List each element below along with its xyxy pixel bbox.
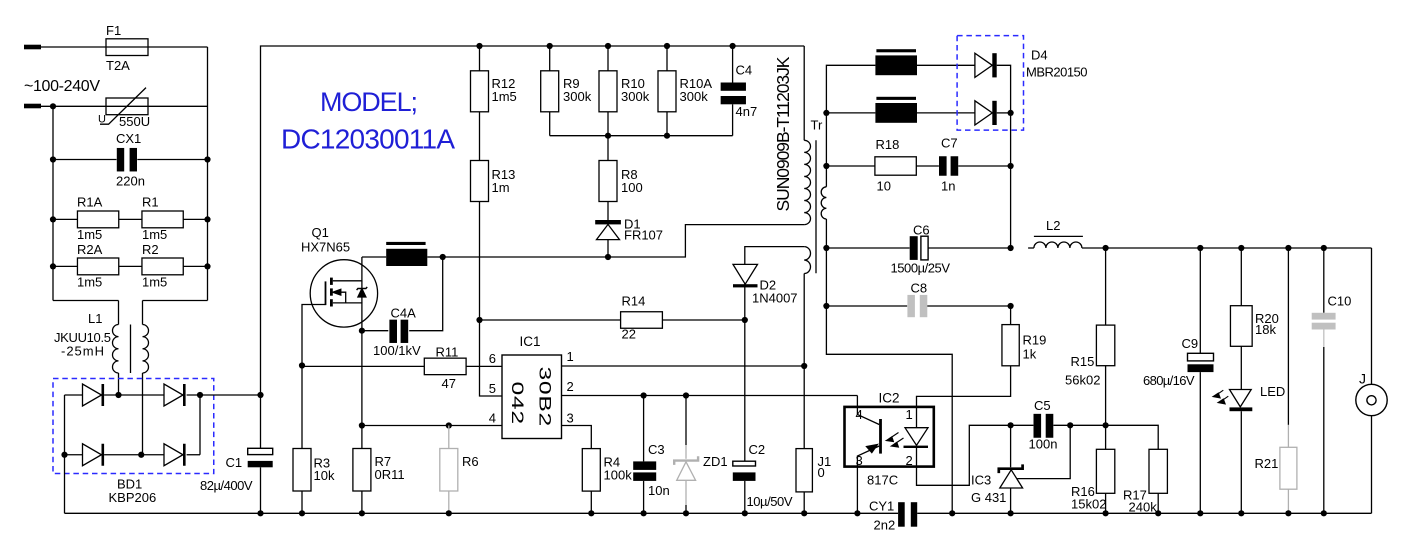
svg-text:KBP206: KBP206: [109, 490, 157, 505]
svg-text:100k: 100k: [604, 467, 633, 482]
svg-text:47: 47: [442, 376, 456, 391]
common-mode choke L1 JKUU10.5 -25mH: [54, 301, 149, 455]
IC2 led: [887, 407, 929, 467]
svg-text:IC3: IC3: [971, 473, 991, 488]
wire output rail to J connector: [1106, 245, 1372, 251]
svg-text:1N4007: 1N4007: [752, 290, 798, 305]
svg-text:56k02: 56k02: [1065, 373, 1100, 388]
svg-text:1500µ/25V: 1500µ/25V: [891, 261, 951, 276]
wire secondary return to output rail: [826, 247, 909, 249]
shunt reference IC3 G 431: [971, 425, 1070, 516]
svg-text:Tr: Tr: [811, 118, 823, 133]
optocoupler IC2 817C: [845, 390, 934, 487]
svg-text:550U: 550U: [119, 114, 150, 129]
svg-text:~100-240V: ~100-240V: [24, 78, 100, 95]
svg-text:4: 4: [856, 407, 863, 422]
svg-text:Q1: Q1: [312, 225, 329, 240]
capacitor C2 10u/50V: [733, 320, 793, 516]
resistor R15 56k02: [1065, 248, 1115, 425]
svg-text:-25mH: -25mH: [61, 344, 104, 359]
wire D4 cathode bus down to output rail: [1008, 113, 1014, 248]
diode D4-B: [975, 101, 1014, 125]
ferrite bead secondary output 2: [826, 97, 975, 123]
svg-text:R15: R15: [1071, 354, 1095, 369]
resistor R1 1m5: [119, 195, 211, 243]
svg-text:10k: 10k: [314, 468, 335, 483]
svg-text:CY1: CY1: [869, 499, 894, 514]
svg-text:R18: R18: [876, 137, 900, 152]
svg-text:FR107: FR107: [624, 228, 663, 243]
svg-text:3: 3: [567, 411, 574, 426]
capacitor C1 82u/400V: [200, 395, 273, 516]
svg-text:R21: R21: [1255, 456, 1279, 471]
svg-text:D4: D4: [1031, 48, 1048, 63]
resistor R6 not fitted: [440, 426, 479, 517]
svg-text:300k: 300k: [680, 89, 709, 104]
svg-text:240k: 240k: [1129, 500, 1158, 515]
svg-text:1k: 1k: [1023, 346, 1037, 361]
pin 4 label IC2: [856, 407, 863, 422]
label ~100-240V: [24, 78, 100, 95]
svg-text:R1: R1: [142, 195, 159, 210]
connector J output jack: [1356, 248, 1387, 513]
wire bottom rail secondary side: [917, 512, 1371, 514]
resistor R8 100: [599, 136, 643, 220]
svg-text:10: 10: [877, 179, 891, 194]
resistor R4 100k: [582, 449, 632, 517]
svg-text:IC2: IC2: [879, 390, 900, 405]
capacitor C3 10n: [633, 396, 670, 517]
svg-text:MBR20150: MBR20150: [1026, 65, 1088, 80]
resistor R7 0R11: [353, 331, 405, 517]
svg-text:C2: C2: [749, 442, 766, 457]
resistor R3 10k: [293, 362, 335, 516]
wire drain node to D1 anode and primary bottom: [440, 225, 805, 261]
svg-text:1m5: 1m5: [142, 227, 167, 242]
svg-text:U: U: [98, 114, 106, 126]
transformer secondary winding: [821, 65, 875, 306]
svg-text:C7: C7: [941, 135, 958, 150]
svg-text:10µ/50V: 10µ/50V: [747, 494, 793, 509]
wire right bus vertical: [143, 47, 208, 301]
IC2 phototransistor: [857, 396, 880, 467]
svg-text:18k: 18k: [1255, 322, 1276, 337]
junction DC bus at bridge output: [257, 392, 263, 398]
diode BD1-A top-left: [65, 384, 105, 406]
svg-text:1: 1: [567, 349, 574, 364]
transformer core: [815, 140, 817, 273]
diode D4-A: [975, 53, 1011, 113]
resistor R14 22: [480, 294, 748, 342]
wire left bus vertical: [53, 106, 119, 300]
svg-text:L1: L1: [88, 311, 102, 326]
bridge rectifier BD1 KBP206 dashed box: [53, 379, 214, 506]
transistor Q1 HX7N65 MOSFET: [301, 225, 378, 366]
diode D4 dashed box MBR20150: [957, 36, 1087, 131]
ferrite bead secondary output 1: [875, 49, 975, 75]
svg-text:T2A: T2A: [106, 58, 130, 73]
pin 3 label IC2: [856, 453, 863, 468]
resistor R19 1k: [917, 306, 1047, 407]
svg-text:1m5: 1m5: [142, 275, 167, 290]
node AC neutral input terminal 2: [24, 104, 41, 109]
svg-text:817C: 817C: [867, 473, 898, 488]
svg-text:10n: 10n: [648, 483, 670, 498]
label DC12030011A: [281, 124, 455, 155]
svg-text:R2: R2: [142, 242, 159, 257]
pin 3 label IC1: [567, 411, 574, 426]
svg-text:0R11: 0R11: [375, 467, 405, 482]
svg-text:C3: C3: [648, 442, 665, 457]
resistor R1A 1m5: [50, 195, 119, 243]
svg-text:680µ/16V: 680µ/16V: [1143, 373, 1195, 388]
resistor R2 1m5: [119, 242, 211, 290]
wire AC neutral from terminal to right bus: [41, 105, 208, 107]
capacitor C10 not fitted: [1312, 248, 1352, 516]
svg-text:R19: R19: [1023, 332, 1047, 347]
capacitor C9 680u/16V: [1143, 248, 1214, 516]
svg-text:1m5: 1m5: [77, 227, 102, 242]
resistor R2A 1m5: [50, 242, 119, 290]
pin 5 label IC1: [489, 381, 496, 396]
svg-text:C9: C9: [1182, 336, 1199, 351]
svg-text:L2: L2: [1046, 218, 1060, 233]
wire IC1 pin 5 to R13/R14 node: [476, 317, 502, 396]
resistor R12 1m5: [471, 43, 517, 112]
svg-text:100n: 100n: [1029, 437, 1058, 452]
svg-text:1m5: 1m5: [492, 89, 517, 104]
svg-text:R2A: R2A: [77, 242, 103, 257]
svg-text:R11: R11: [436, 344, 459, 359]
pin 2 label IC2: [906, 453, 913, 468]
wire bridge right column: [187, 395, 200, 455]
node AC line input terminal 1: [24, 45, 41, 50]
svg-text:C10: C10: [1328, 294, 1352, 309]
svg-text:G 431: G 431: [971, 490, 1006, 505]
capacitor C8 not fitted: [823, 280, 1013, 317]
junction bridge top-right: [197, 392, 203, 398]
svg-text:100: 100: [621, 180, 643, 195]
wire secondary ground to bottom rail: [826, 306, 955, 516]
svg-text:C1: C1: [226, 455, 243, 470]
diode BD1-C bottom-left: [65, 444, 105, 466]
svg-text:4n7: 4n7: [736, 104, 758, 119]
svg-text:6: 6: [489, 351, 496, 366]
svg-text:R1A: R1A: [77, 195, 103, 210]
svg-text:5: 5: [489, 381, 496, 396]
capacitor C4A 100/1kV: [359, 257, 443, 358]
pin 4 label IC1: [489, 411, 496, 426]
inductor L2: [1028, 218, 1109, 251]
svg-text:300k: 300k: [563, 89, 592, 104]
svg-text:100/1kV: 100/1kV: [373, 343, 421, 358]
svg-text:220n: 220n: [116, 174, 145, 189]
pin 1 label IC1: [567, 349, 574, 364]
wire DC+ bus vertical and top rail: [261, 46, 805, 395]
svg-text:DC12030011A: DC12030011A: [281, 124, 455, 155]
diode BD1-B top-right: [104, 384, 186, 406]
transformer aux winding: [804, 247, 810, 366]
svg-text:SUN0909B-T11203JK: SUN0909B-T11203JK: [773, 56, 793, 211]
capacitor CX1 220n: [50, 131, 211, 189]
svg-text:LED: LED: [1260, 384, 1285, 399]
transformer Tr SUN0909B-T11203JK label: [773, 56, 793, 211]
svg-text:15k02: 15k02: [1071, 497, 1106, 512]
svg-text:4: 4: [489, 411, 496, 426]
label Tr: [811, 118, 823, 133]
junction bridge AC1: [115, 392, 121, 398]
resistor R9 300k: [541, 43, 592, 136]
svg-text:IC1: IC1: [520, 334, 541, 349]
diode D2 1N4007: [733, 247, 804, 320]
svg-text:2: 2: [906, 453, 913, 468]
svg-text:30B2: 30B2: [535, 367, 553, 427]
junction left bus top: [50, 103, 56, 109]
wire bridge left column to bottom rail: [61, 395, 67, 513]
svg-text:J: J: [1359, 371, 1366, 387]
wire AC line from terminal through fuse to right bus: [41, 46, 208, 48]
varistor U 550U: [98, 88, 150, 129]
svg-text:F1: F1: [106, 23, 121, 38]
resistor R10A 300k: [658, 43, 712, 136]
fuse F1 T2A: [106, 23, 148, 73]
svg-text:R14: R14: [622, 294, 646, 309]
label MODEL;: [320, 87, 418, 117]
svg-text:C4: C4: [736, 63, 753, 78]
capacitor CY1 2n2: [869, 499, 917, 533]
capacitor C6 1500u/25V: [891, 223, 1014, 276]
wire bottom rail primary side: [65, 512, 899, 514]
svg-text:1n: 1n: [941, 179, 955, 194]
resistor R13 1m: [471, 112, 516, 320]
resistor R18 10: [826, 137, 916, 194]
diode D1 FR107: [595, 217, 663, 258]
svg-text:C5: C5: [1034, 398, 1051, 413]
diode LED: [1213, 384, 1285, 516]
svg-text:300k: 300k: [621, 89, 650, 104]
resistor R10 300k: [599, 43, 650, 136]
zener ZD1 not fitted: [674, 396, 727, 517]
wire IC2 pin 2 to C5 node: [917, 425, 1011, 485]
transformer primary winding: [804, 46, 810, 225]
wire IC1 pin 4 to R6 and R7: [359, 422, 502, 428]
capacitor C5 100n: [1008, 398, 1109, 451]
svg-text:ZD1: ZD1: [703, 454, 728, 469]
wire bridge positive output to DC bus: [187, 394, 261, 396]
wire IC1 pin 3 to R4: [562, 426, 592, 449]
resistor R17 240k: [1106, 425, 1168, 516]
junction bridge AC2: [138, 452, 144, 458]
capacitor C4 4n7: [721, 43, 758, 136]
diode BD1-D bottom-right: [104, 444, 186, 466]
ferrite bead on Q1 drain: [362, 242, 443, 266]
wire IC1 pin 2 to IC2 pin 4: [562, 392, 858, 398]
svg-text:2: 2: [567, 379, 574, 394]
svg-text:1m5: 1m5: [77, 275, 102, 290]
svg-text:C8: C8: [911, 280, 928, 295]
pin 6 label IC1: [489, 351, 496, 366]
svg-text:22: 22: [622, 327, 636, 342]
wire snubber bottom join: [550, 133, 733, 139]
svg-text:C6: C6: [913, 223, 930, 238]
svg-text:82µ/400V: 82µ/400V: [200, 478, 253, 493]
svg-text:C4A: C4A: [391, 305, 417, 320]
resistor R20 18k: [1230, 248, 1278, 390]
pin 1 label IC2: [906, 407, 913, 422]
svg-text:042: 042: [508, 382, 526, 425]
pin 2 label IC1: [567, 379, 574, 394]
resistor R21 not fitted: [1255, 248, 1297, 516]
svg-text:0: 0: [818, 465, 825, 480]
capacitor C7 1n: [916, 135, 1010, 193]
svg-text:2n2: 2n2: [874, 518, 896, 533]
op-amp IC1 pwm controller 30B2 042: [502, 334, 562, 439]
svg-text:CX1: CX1: [116, 131, 141, 146]
svg-text:R6: R6: [462, 454, 479, 469]
resistor R16 15k02: [1071, 425, 1115, 516]
resistor R11 47: [302, 344, 502, 391]
svg-text:HX7N65: HX7N65: [301, 239, 350, 254]
svg-text:MODEL;: MODEL;: [320, 87, 418, 117]
wire IC1 pin 1 to aux winding and J1 column: [562, 363, 808, 369]
svg-text:1: 1: [906, 407, 913, 422]
svg-text:1m: 1m: [492, 180, 510, 195]
wire IC2 pin 3 to bottom rail: [854, 467, 860, 517]
jumper J1 0: [796, 366, 831, 516]
